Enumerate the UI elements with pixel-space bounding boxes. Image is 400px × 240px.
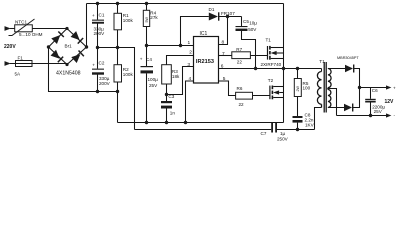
svg-text:C7: C7 xyxy=(261,131,267,136)
svg-text:4X1N5408: 4X1N5408 xyxy=(56,71,81,77)
svg-text:FR107: FR107 xyxy=(221,11,235,16)
svg-text:C1: C1 xyxy=(99,13,105,18)
svg-text:10µ: 10µ xyxy=(249,20,257,25)
svg-text:C2: C2 xyxy=(99,60,105,65)
svg-text:5A: 5A xyxy=(15,71,22,76)
svg-text:C6: C6 xyxy=(372,88,378,93)
svg-text:Br1: Br1 xyxy=(65,44,73,49)
svg-text:+: + xyxy=(92,13,95,18)
svg-text:50V: 50V xyxy=(248,27,257,32)
svg-text:F1: F1 xyxy=(18,56,24,61)
svg-text:100: 100 xyxy=(303,86,311,91)
svg-text:IR2153: IR2153 xyxy=(196,59,214,65)
svg-text:8: 8 xyxy=(222,40,225,46)
svg-text:250V: 250V xyxy=(277,136,289,141)
svg-text:C4: C4 xyxy=(146,57,152,62)
svg-text:6: 6 xyxy=(221,63,224,69)
svg-text:100k: 100k xyxy=(123,72,134,77)
svg-text:25V: 25V xyxy=(149,83,158,88)
svg-text:2W: 2W xyxy=(296,86,300,92)
svg-text:5: 5 xyxy=(223,76,226,82)
svg-text:2: 2 xyxy=(189,49,192,55)
svg-text:T1: T1 xyxy=(319,59,325,64)
svg-text:12V: 12V xyxy=(385,99,395,105)
svg-text:1KV: 1KV xyxy=(305,122,315,127)
svg-text:18k: 18k xyxy=(172,74,180,79)
svg-text:200V: 200V xyxy=(94,31,106,36)
svg-text:T2: T2 xyxy=(268,78,274,83)
svg-text:MBR3045PT: MBR3045PT xyxy=(337,56,359,60)
svg-text:7: 7 xyxy=(222,51,225,57)
svg-text:27k: 27k xyxy=(150,15,158,20)
svg-text:NTC1: NTC1 xyxy=(15,19,27,24)
svg-text:R7: R7 xyxy=(236,47,242,52)
svg-text:3: 3 xyxy=(187,62,190,68)
svg-text:2XIRF740: 2XIRF740 xyxy=(261,62,282,67)
svg-text:IC1: IC1 xyxy=(200,31,208,37)
svg-text:22: 22 xyxy=(237,59,243,64)
svg-text:100k: 100k xyxy=(123,18,134,23)
svg-text:1µ: 1µ xyxy=(280,131,286,136)
svg-text:200V: 200V xyxy=(99,81,111,86)
svg-text:+: + xyxy=(92,62,95,67)
svg-text:4: 4 xyxy=(189,76,192,82)
svg-text:22: 22 xyxy=(239,102,245,107)
svg-text:R6: R6 xyxy=(237,86,243,91)
svg-text:220V: 220V xyxy=(4,44,16,50)
svg-text:100µ: 100µ xyxy=(148,77,159,82)
svg-text:+: + xyxy=(140,57,143,62)
svg-text:T1: T1 xyxy=(266,38,272,43)
svg-text:D1: D1 xyxy=(209,7,215,12)
svg-text:C3: C3 xyxy=(168,94,174,99)
svg-text:5W: 5W xyxy=(145,17,149,23)
svg-text:25V: 25V xyxy=(374,109,383,114)
svg-text:1: 1 xyxy=(188,40,191,46)
svg-text:5...10 OHM: 5...10 OHM xyxy=(19,32,43,37)
svg-text:1n: 1n xyxy=(170,110,176,115)
svg-text:+: + xyxy=(393,85,396,90)
